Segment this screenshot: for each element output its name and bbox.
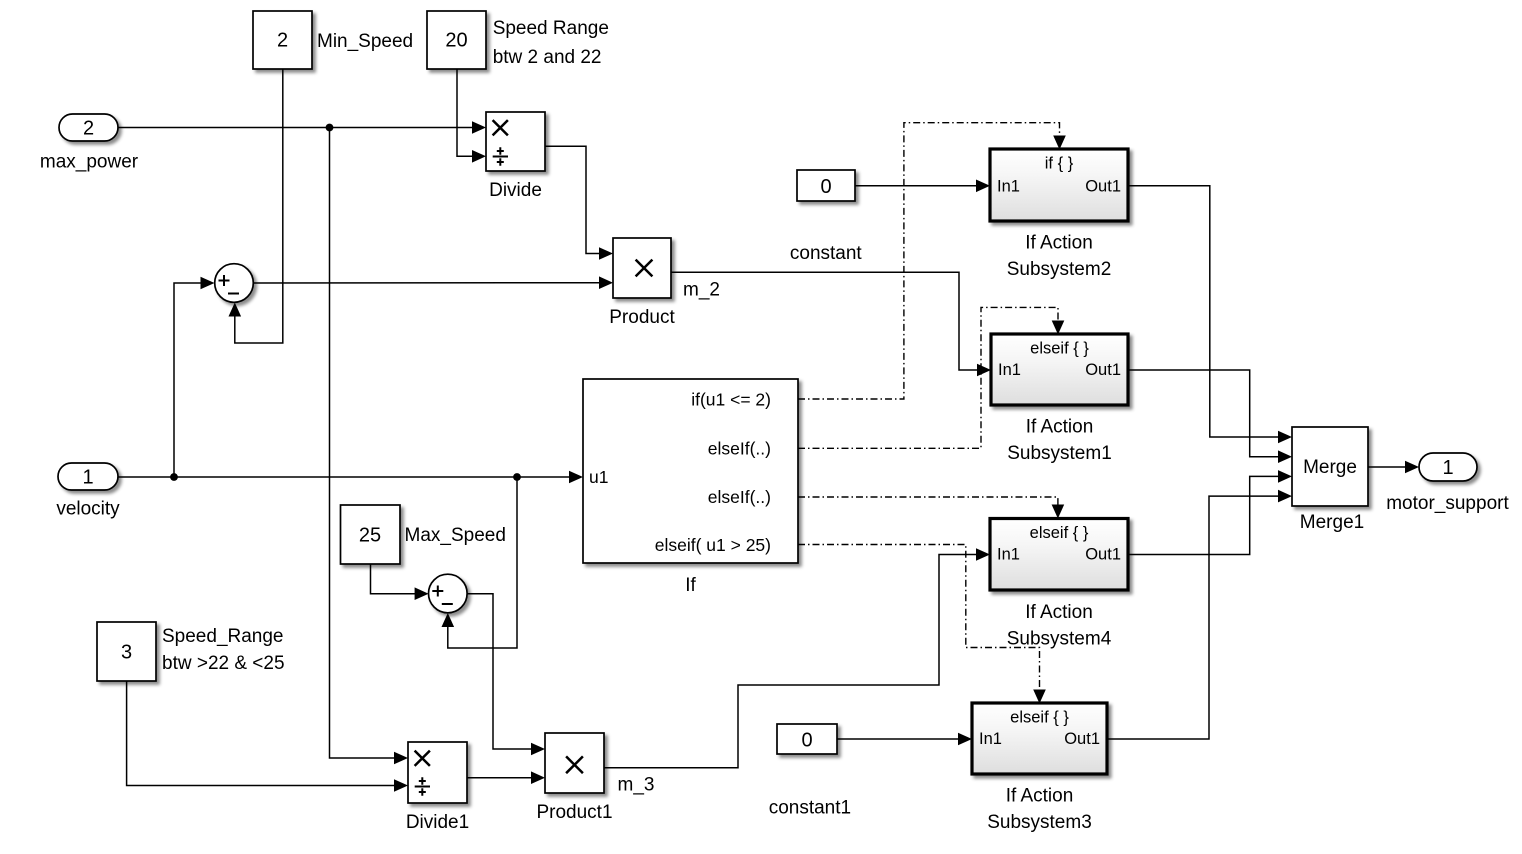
output port motor_support bbox=[1419, 453, 1477, 481]
svg-text:m_2: m_2 bbox=[683, 280, 720, 301]
svg-text:u1: u1 bbox=[589, 467, 608, 487]
svg-text:Out1: Out1 bbox=[1064, 730, 1100, 748]
svg-text:In1: In1 bbox=[998, 361, 1021, 379]
sum block Sum bbox=[215, 264, 254, 303]
constant Max_Speed value 25 bbox=[341, 505, 401, 564]
wire Min_Speed to Sum minus input bbox=[229, 70, 283, 344]
subsystem If Action Subsystem3 bbox=[972, 703, 1107, 774]
wire Merge output to motor_support bbox=[1368, 461, 1419, 474]
svg-text:elseIf(..): elseIf(..) bbox=[708, 439, 771, 459]
svg-text:motor_support: motor_support bbox=[1386, 493, 1509, 514]
wire max_power branch to Divide1 input 1 bbox=[330, 128, 409, 765]
subsystem If Action Subsystem2 bbox=[990, 149, 1128, 221]
svg-text:Speed_Rangebtw >22 & <25: Speed_Rangebtw >22 & <25 bbox=[162, 626, 285, 674]
svg-text:Speed Rangebtw 2 and 22: Speed Rangebtw 2 and 22 bbox=[493, 18, 609, 68]
wire velocity branch to Sum plus input bbox=[174, 277, 215, 477]
wire Product output m_2 to If Action Subsystem1 In1 bbox=[671, 272, 991, 376]
wire If Action Subsystem2 Out1 to Merge input 1 bbox=[1128, 186, 1292, 444]
svg-text:If ActionSubsystem2: If ActionSubsystem2 bbox=[1007, 233, 1112, 281]
svg-text:If ActionSubsystem1: If ActionSubsystem1 bbox=[1007, 417, 1112, 465]
wire Product1 output m_3 to If Action Subsystem4 In1 bbox=[604, 548, 990, 768]
wire max_power to Divide input 1 bbox=[118, 121, 486, 134]
svg-text:1: 1 bbox=[82, 466, 93, 488]
wire constant1 0 to If Action Subsystem3 In1 bbox=[837, 733, 972, 746]
svg-text:max_power: max_power bbox=[40, 152, 139, 173]
svg-text:Divide1: Divide1 bbox=[406, 812, 469, 833]
divide block Divide bbox=[486, 112, 545, 171]
svg-text:Merge: Merge bbox=[1303, 457, 1357, 478]
svg-text:If: If bbox=[685, 575, 696, 596]
constant Min_Speed value 2 bbox=[253, 11, 312, 69]
svg-text:m_3: m_3 bbox=[618, 775, 655, 796]
wire velocity branch to Sum1 minus input bbox=[442, 477, 518, 648]
input port max_power bbox=[59, 114, 118, 141]
wire Sum output to Product input 2 bbox=[254, 276, 614, 289]
svg-text:3: 3 bbox=[121, 642, 132, 664]
svg-text:2: 2 bbox=[277, 30, 288, 52]
svg-text:If ActionSubsystem3: If ActionSubsystem3 bbox=[987, 786, 1092, 834]
junction velocity branch to Sum1 bbox=[513, 473, 521, 481]
wire velocity to If input u1 bbox=[118, 471, 583, 484]
svg-text:elseif { }: elseif { } bbox=[1030, 524, 1089, 542]
svg-text:Out1: Out1 bbox=[1085, 546, 1121, 564]
constant block 0 (constant) bbox=[797, 170, 855, 201]
svg-text:if { }: if { } bbox=[1045, 155, 1074, 173]
svg-text:Out1: Out1 bbox=[1085, 177, 1121, 195]
wire If Action Subsystem1 Out1 to Merge input 2 bbox=[1128, 370, 1292, 463]
svg-text:if(u1 <= 2): if(u1 <= 2) bbox=[691, 390, 771, 410]
svg-text:Product1: Product1 bbox=[536, 802, 612, 823]
svg-text:In1: In1 bbox=[997, 177, 1020, 195]
svg-text:25: 25 bbox=[359, 525, 381, 547]
action wire If output 2 to If Action Subsystem1 bbox=[798, 307, 1064, 448]
svg-text:elseif { }: elseif { } bbox=[1010, 709, 1069, 727]
svg-text:Product: Product bbox=[609, 307, 675, 328]
svg-text:Out1: Out1 bbox=[1085, 361, 1121, 379]
svg-text:elseif { }: elseif { } bbox=[1030, 340, 1089, 358]
svg-text:constant1: constant1 bbox=[769, 798, 851, 819]
svg-text:In1: In1 bbox=[997, 546, 1020, 564]
merge block Merge1 bbox=[1292, 427, 1368, 506]
constant Speed Range value 20 bbox=[427, 11, 486, 69]
wire Divide1 output to Product1 input 2 bbox=[467, 771, 545, 784]
wire Max_Speed 25 to Sum1 plus input bbox=[371, 565, 429, 601]
wire Speed Range 20 to Divide input 2 bbox=[457, 70, 486, 163]
wire Divide output to Product input 1 bbox=[545, 146, 613, 259]
svg-text:Max_Speed: Max_Speed bbox=[405, 525, 506, 546]
svg-text:1: 1 bbox=[1442, 457, 1453, 479]
svg-text:Divide: Divide bbox=[489, 180, 542, 201]
wire Speed_Range 3 to Divide1 input 2 bbox=[127, 682, 408, 792]
sum block Sum1 bbox=[429, 574, 468, 613]
wire If Action Subsystem4 Out1 to Merge input 3 bbox=[1128, 470, 1292, 554]
svg-text:0: 0 bbox=[820, 176, 831, 198]
product block Product1 bbox=[545, 733, 604, 793]
svg-text:constant: constant bbox=[790, 243, 863, 264]
divide block Divide1 bbox=[408, 742, 467, 803]
svg-text:elseif( u1 > 25): elseif( u1 > 25) bbox=[655, 535, 771, 555]
action wire If output 3 to If Action Subsystem4 bbox=[798, 497, 1064, 519]
svg-text:In1: In1 bbox=[979, 730, 1002, 748]
input port velocity bbox=[58, 463, 118, 490]
wire If Action Subsystem3 Out1 to Merge input 4 bbox=[1107, 490, 1292, 739]
wire Sum1 output to Product1 input 1 bbox=[467, 594, 545, 756]
svg-text:0: 0 bbox=[801, 729, 812, 751]
constant block 0 (constant1) bbox=[777, 724, 837, 754]
subsystem If Action Subsystem4 bbox=[990, 519, 1128, 591]
junction max_power branch bbox=[326, 124, 334, 132]
action wire If output 1 to If Action Subsystem2 bbox=[798, 123, 1066, 399]
if block If bbox=[583, 379, 798, 563]
wire constant 0 to If Action Subsystem2 In1 bbox=[855, 180, 990, 193]
svg-text:2: 2 bbox=[83, 117, 94, 139]
constant Speed_Range value 3 bbox=[97, 622, 156, 681]
junction velocity branch to Sum bbox=[170, 473, 178, 481]
action wire If output 4 to If Action Subsystem3 bbox=[798, 545, 1046, 704]
svg-text:elseIf(..): elseIf(..) bbox=[708, 487, 771, 507]
svg-text:If ActionSubsystem4: If ActionSubsystem4 bbox=[1007, 602, 1112, 650]
svg-text:Merge1: Merge1 bbox=[1300, 512, 1364, 533]
subsystem If Action Subsystem1 bbox=[991, 334, 1128, 405]
svg-text:Min_Speed: Min_Speed bbox=[317, 31, 413, 52]
product block Product bbox=[613, 238, 671, 298]
svg-text:velocity: velocity bbox=[56, 499, 120, 520]
svg-text:20: 20 bbox=[445, 30, 467, 52]
